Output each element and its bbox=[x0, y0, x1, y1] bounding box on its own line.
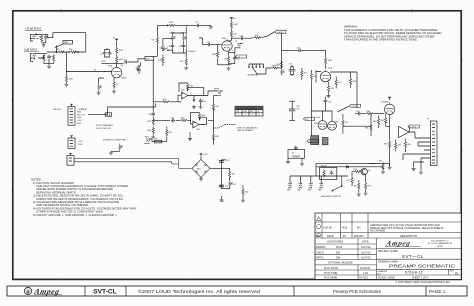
node V1 labels extra bbox=[94, 61, 124, 71]
resistor R49 return series bbox=[155, 138, 162, 143]
resistor R66 bbox=[404, 139, 411, 150]
svg-text:CHK'D:: CHK'D: bbox=[316, 251, 325, 254]
ground R8 bbox=[64, 83, 68, 87]
svg-text:SHEET 1 OF 1: SHEET 1 OF 1 bbox=[412, 277, 429, 280]
pot P1 trim bbox=[98, 82, 102, 91]
svg-text:DC VOLTAGE TABLE: DC VOLTAGE TABLE bbox=[237, 107, 256, 110]
capacitor C5 bypass bbox=[137, 66, 141, 74]
box shield b bbox=[322, 137, 328, 144]
svg-text:SVT-CL: SVT-CL bbox=[93, 289, 116, 296]
wire V3 cathode column bbox=[389, 115, 391, 166]
drawing name row bbox=[377, 268, 462, 270]
svg-text:R26: R26 bbox=[331, 88, 334, 90]
svg-text:R65: R65 bbox=[398, 145, 401, 147]
capacitor C11 grid bbox=[199, 38, 222, 46]
resistor R70 base bbox=[352, 169, 362, 173]
wire mute bus top bbox=[316, 164, 390, 176]
capacitor C1a input bbox=[42, 34, 50, 43]
svg-text:a: a bbox=[27, 290, 30, 296]
svg-text:Q1: Q1 bbox=[368, 170, 371, 172]
resistor R25 plate V2B bbox=[324, 57, 332, 65]
svg-text:R66: R66 bbox=[407, 144, 410, 146]
connector P3 bbox=[68, 136, 75, 149]
pot V2 volume bbox=[275, 61, 284, 76]
resistor R71 bbox=[346, 172, 353, 186]
svg-text:NO CHANGE: NO CHANGE bbox=[370, 230, 385, 233]
wire tone center vertical bbox=[185, 25, 187, 53]
svg-text:R63: R63 bbox=[381, 120, 384, 122]
ground connector b bbox=[419, 165, 423, 175]
svg-text:C12: C12 bbox=[236, 58, 239, 60]
svg-text:4: 4 bbox=[259, 114, 260, 116]
svg-text:RCW: RCW bbox=[336, 246, 343, 249]
capacitor C8 bbox=[159, 45, 165, 49]
capacitor C7 top bbox=[195, 22, 200, 28]
svg-text:THAN EXPLAINED IN THE OPERATIN: THAN EXPLAINED IN THE OPERATING INSTRUCT… bbox=[344, 38, 418, 42]
svg-text:DRAWN:: DRAWN: bbox=[316, 246, 326, 249]
wire flag down bbox=[282, 33, 326, 60]
resistor R45 mid bbox=[180, 118, 188, 122]
svg-text:V3-A&B: V3-A&B bbox=[381, 101, 389, 104]
resistor R6 bbox=[68, 49, 78, 53]
tube V3 triode bbox=[381, 101, 395, 115]
svg-text:SEE SH 2: SEE SH 2 bbox=[53, 109, 62, 111]
svg-text:GND: GND bbox=[77, 112, 82, 114]
svg-text:FILE NAME:: FILE NAME: bbox=[324, 277, 338, 280]
resistor R61 grid leak bbox=[365, 114, 372, 136]
ground Q1 a bbox=[357, 193, 361, 197]
resistor R18 cathode V2A bbox=[224, 51, 230, 65]
box shield a bbox=[311, 136, 319, 145]
svg-text:1: 1 bbox=[238, 114, 239, 116]
svg-text:C11: C11 bbox=[206, 42, 209, 44]
capacitor C10 bbox=[179, 44, 186, 48]
svg-text:LINE OUT (BALANCED): LINE OUT (BALANCED) bbox=[237, 127, 258, 130]
resistor R15 plate V2A bbox=[230, 20, 238, 29]
svg-text:C9: C9 bbox=[168, 46, 170, 48]
svg-text:R51: R51 bbox=[233, 184, 236, 186]
capacitor C42 mid bbox=[171, 118, 176, 123]
svg-text:SOLD P MLS CB: SOLD P MLS CB bbox=[96, 128, 111, 130]
wire J2 to R3 bbox=[38, 54, 47, 58]
ground P3 trim bbox=[109, 151, 113, 155]
resistor R73 bbox=[365, 175, 372, 192]
resistor R67 tall bbox=[342, 114, 348, 134]
svg-text:11/17/00: 11/17/00 bbox=[361, 246, 371, 249]
ground input bus bbox=[47, 65, 51, 69]
svg-text:R64: R64 bbox=[384, 143, 387, 145]
svg-text:C14: C14 bbox=[289, 63, 292, 65]
ground J1 bbox=[42, 43, 46, 47]
Ampeg script logo title block bbox=[384, 240, 421, 248]
svg-text:V2-B: V2-B bbox=[328, 68, 333, 70]
svg-text:(SEE SH 2/PAGE2): (SEE SH 2/PAGE2) bbox=[237, 129, 254, 132]
ground FX left bbox=[151, 135, 155, 139]
capacitor C4 coupling bbox=[124, 59, 145, 64]
resistor R63 cathode V3 bbox=[381, 114, 390, 126]
svg-text:R60: R60 bbox=[367, 111, 370, 113]
wire P4 rails bbox=[74, 159, 192, 169]
title block outline bbox=[315, 213, 461, 279]
tube V1A triode bbox=[108, 64, 127, 79]
svg-text:K1: K1 bbox=[292, 152, 294, 154]
ground V2A bbox=[227, 67, 231, 71]
power node B+1 bbox=[113, 38, 118, 42]
svg-text:1:04: 1:04 bbox=[363, 272, 368, 275]
transistor Q1 bbox=[361, 168, 371, 174]
connector J2 input jack bbox=[30, 53, 38, 62]
svg-text:C42: C42 bbox=[171, 118, 174, 120]
svg-text:MUTE: MUTE bbox=[321, 165, 327, 167]
svg-text:PLOT TIME:: PLOT TIME: bbox=[324, 272, 338, 275]
svg-text:R61: R61 bbox=[365, 128, 368, 130]
svg-text:NO.: NO. bbox=[378, 273, 382, 275]
svg-text:5) CIRCUIT GROUND ⏚ SUB GR: 5) CIRCUIT GROUND ⏚ SUB GROUND ⏚ CHASSIS… bbox=[33, 213, 118, 217]
svg-text:100: 100 bbox=[296, 109, 299, 111]
svg-text:R44: R44 bbox=[147, 130, 150, 132]
capacitor C9 bbox=[168, 44, 175, 48]
bridge rectifier BR1 bbox=[192, 159, 210, 177]
svg-text:NOTE: TERMINAL J: NOTE: TERMINAL J bbox=[96, 124, 113, 127]
resistor R64 tail bbox=[384, 140, 391, 148]
svg-text:POWER/COLUMN/P PAL 7: POWER/COLUMN/P PAL 7 bbox=[103, 139, 128, 142]
resistor R47 return bbox=[166, 127, 173, 142]
wire FX mid rail bbox=[153, 120, 213, 124]
jack J5 effects return bbox=[144, 137, 166, 144]
Ampeg logo footer bbox=[24, 287, 62, 296]
wire grid feed V1 bbox=[66, 52, 104, 72]
jack J4 effects send bbox=[208, 89, 223, 96]
svg-text:+15V: +15V bbox=[225, 160, 230, 162]
wire series loop bbox=[47, 33, 86, 52]
flag C3 left bbox=[235, 55, 246, 59]
svg-text:11/17/00: 11/17/00 bbox=[361, 251, 371, 254]
copyright line below title block bbox=[395, 281, 451, 284]
svg-text:FREQUENCY SWITCH: FREQUENCY SWITCH bbox=[321, 196, 341, 198]
svg-text:SVT2CL: SVT2CL bbox=[359, 277, 369, 280]
rotary MIDRANGE switch bbox=[248, 64, 264, 76]
svg-text:11/17/00: 11/17/00 bbox=[361, 257, 371, 260]
ground R13 bbox=[184, 66, 188, 70]
resistor R16 screen bbox=[230, 29, 237, 38]
svg-text:220K: 220K bbox=[212, 54, 217, 56]
svg-text:C2: C2 bbox=[100, 53, 102, 55]
svg-text:R42: R42 bbox=[215, 106, 218, 108]
note terminal text bbox=[96, 124, 113, 130]
capacitor C50 bbox=[217, 158, 230, 162]
diode D2 mute bbox=[345, 166, 350, 168]
svg-text:J3: J3 bbox=[235, 41, 237, 43]
resistor R46 feedback U1B bbox=[191, 112, 207, 124]
resistor R42 bbox=[212, 103, 219, 111]
power node B+3 bbox=[388, 97, 391, 100]
scale row bbox=[378, 277, 429, 280]
jack J12 pad bbox=[308, 183, 313, 192]
svg-text:C1/C2: C1/C2 bbox=[352, 106, 359, 108]
ground pot MID bbox=[136, 67, 140, 71]
wire buffer out bbox=[409, 132, 415, 138]
svg-text:100K: 100K bbox=[233, 24, 238, 26]
ground R74 bbox=[381, 170, 385, 174]
tube V3A triode bbox=[314, 121, 327, 130]
revision symbols column bbox=[316, 217, 320, 237]
svg-text:ECN/PN: ECN/PN bbox=[354, 235, 364, 238]
svg-text:DATE:: DATE: bbox=[362, 241, 369, 244]
connector P4 bbox=[67, 153, 74, 165]
wire input bus bottom bbox=[44, 59, 54, 65]
opamp U1A bbox=[181, 88, 188, 99]
resistor R11 top bbox=[167, 22, 176, 27]
resistor R72 bbox=[353, 180, 360, 193]
resistor R62 plate load bbox=[373, 116, 380, 128]
svg-text:C1/C2: C1/C2 bbox=[277, 32, 284, 34]
svg-text:C4: C4 bbox=[124, 59, 126, 61]
pot trim P3 bbox=[111, 144, 123, 152]
resistor R50 bbox=[229, 170, 236, 178]
svg-text:560: 560 bbox=[155, 138, 158, 140]
wire cathode V1 bbox=[104, 72, 114, 81]
resistor R5 bbox=[56, 49, 65, 53]
svg-text:C40: C40 bbox=[202, 101, 205, 103]
resistor R44 left bbox=[147, 127, 154, 135]
svg-text:GND: GND bbox=[78, 144, 83, 146]
resistor R17 grid bbox=[212, 45, 219, 65]
wire R67 to right bbox=[348, 124, 371, 126]
wire U1A out bbox=[188, 87, 208, 99]
ground R52 bbox=[241, 199, 245, 203]
flag PAD box bbox=[55, 40, 73, 47]
svg-text:100K: 100K bbox=[119, 59, 124, 61]
resistor R10 cathode bbox=[113, 81, 119, 89]
svg-text:C41: C41 bbox=[148, 114, 151, 116]
svg-text:PAD: PAD bbox=[64, 41, 69, 44]
svg-text:+ STANDBY: + STANDBY bbox=[77, 108, 88, 111]
svg-text:©2007 LOUD Technologies Inc.: ©2007 LOUD Technologies Inc. All rights … bbox=[138, 288, 261, 294]
wire plate supply V1 bbox=[102, 42, 124, 67]
wire stub node A bbox=[56, 45, 57, 52]
resistor R12 bbox=[151, 36, 158, 44]
ground relay right bbox=[300, 158, 304, 166]
resistor R1 input bbox=[39, 34, 43, 43]
wire P1 sig out bbox=[88, 103, 155, 114]
svg-text:R28: R28 bbox=[353, 81, 356, 83]
svg-text:ULTRA-LO: ULTRA-LO bbox=[186, 50, 196, 53]
svg-text:PAGE 1: PAGE 1 bbox=[429, 289, 446, 294]
resistor R20 mid feed bbox=[256, 65, 281, 74]
resistor R40 fx in bbox=[162, 95, 182, 103]
resistor R26 cathode V2B bbox=[327, 82, 334, 93]
svg-text:.047: .047 bbox=[179, 46, 183, 48]
resistor R9 bbox=[116, 56, 124, 64]
svg-text:R40: R40 bbox=[163, 99, 166, 101]
capacitor C1 bbox=[47, 55, 52, 59]
ground P1 bbox=[97, 91, 101, 95]
svg-text:R46: R46 bbox=[201, 115, 204, 117]
pot R51 bbox=[229, 180, 236, 187]
node HI INPUT label bbox=[25, 28, 42, 31]
svg-text:R43: R43 bbox=[147, 121, 150, 123]
wire V2B rail drop bbox=[316, 50, 326, 82]
wire line out leader bbox=[213, 125, 236, 129]
capacitor C3 bbox=[105, 48, 112, 57]
ground U1A out bbox=[192, 100, 196, 109]
svg-text:R67: R67 bbox=[345, 122, 348, 124]
node P2-A label bbox=[105, 113, 111, 117]
svg-text:1M: 1M bbox=[151, 40, 154, 42]
node P5 label bbox=[427, 119, 430, 121]
svg-text:APP'D:: APP'D: bbox=[316, 257, 324, 260]
jack J11 pad bbox=[297, 183, 302, 192]
wire FX right column bbox=[212, 95, 214, 144]
svg-text:C30: C30 bbox=[356, 111, 359, 113]
svg-text:0 dB INPUT: 0 dB INPUT bbox=[24, 48, 38, 51]
flag C1/C2 top bbox=[267, 30, 286, 36]
svg-text:R47: R47 bbox=[169, 132, 172, 134]
svg-text:R23: R23 bbox=[304, 73, 307, 75]
svg-text:C1/C2: C1/C2 bbox=[410, 127, 417, 129]
svg-text:PLOT DATE:: PLOT DATE: bbox=[324, 267, 339, 270]
resistor R3 bbox=[41, 54, 45, 62]
svg-text:© COPYRIGHT 2008 LOUD ELECTRO: © COPYRIGHT 2008 LOUD ELECTRONICS INC. bbox=[395, 281, 451, 284]
svg-text:C31: C31 bbox=[328, 102, 331, 104]
svg-text:DW: DW bbox=[336, 251, 341, 254]
svg-text:2: 2 bbox=[245, 114, 246, 116]
resistor R23 bbox=[301, 68, 308, 80]
svg-text:D3: D3 bbox=[305, 119, 307, 121]
jack J3 preamp out bbox=[235, 41, 243, 52]
connector P1 bbox=[68, 104, 75, 125]
wire top rail B bbox=[154, 25, 211, 56]
wire connector feeds bbox=[403, 138, 430, 165]
wire V1 out bus bbox=[99, 78, 104, 82]
tube V2B triode bbox=[320, 68, 332, 82]
svg-text:P2-A: P2-A bbox=[106, 114, 111, 117]
pot BASS bbox=[170, 32, 176, 42]
resistor R22 divider bbox=[277, 61, 283, 69]
ground connector a bbox=[405, 150, 424, 170]
resistor R74 exit bbox=[379, 160, 384, 170]
svg-text:DESCRIPTION: DESCRIPTION bbox=[400, 235, 417, 238]
capacitor C27 rail bbox=[297, 48, 302, 53]
power node B+2 bbox=[230, 17, 237, 20]
wire V2A cathode gnd bbox=[218, 64, 232, 66]
ground bridge bottom bbox=[199, 177, 203, 181]
resistor R27 bbox=[335, 77, 342, 89]
capacitor C40 bbox=[199, 99, 206, 106]
svg-text:100K: 100K bbox=[328, 60, 333, 62]
jack J10 pad bbox=[287, 183, 292, 192]
flag C1/C2 mid bbox=[337, 104, 360, 112]
wire strip right exit bbox=[369, 164, 390, 166]
capacitor C51 bbox=[217, 185, 229, 203]
tube V3B triode bbox=[328, 121, 339, 130]
svg-text:PROJECT NAME:: PROJECT NAME: bbox=[378, 250, 399, 253]
svg-text:SVT—CL: SVT—CL bbox=[402, 254, 424, 259]
company box bbox=[377, 248, 462, 250]
svg-text:V2A: V2A bbox=[222, 37, 227, 40]
opamp U1B bbox=[193, 121, 201, 131]
svg-text:R52: R52 bbox=[245, 191, 248, 193]
svg-text:DATE: DATE bbox=[327, 235, 334, 238]
svg-text:SIG OUT: SIG OUT bbox=[77, 114, 86, 116]
svg-text:100K: 100K bbox=[119, 50, 124, 52]
svg-text:C27: C27 bbox=[297, 48, 300, 50]
capacitor C32 psu electrolytic bbox=[289, 101, 300, 120]
svg-text:R41: R41 bbox=[190, 86, 193, 88]
capacitor C14 pair bbox=[289, 63, 296, 76]
svg-text:R74: R74 bbox=[379, 160, 382, 162]
svg-text:SEND: SEND bbox=[214, 89, 220, 91]
capacitor C12 cathode bbox=[229, 53, 240, 64]
table DC VOLTAGE bbox=[235, 106, 263, 116]
svg-text:DRAWING NAME:: DRAWING NAME: bbox=[378, 260, 399, 263]
wire V2B out right bbox=[326, 71, 358, 108]
svg-text:4-20-08: 4-20-08 bbox=[323, 227, 332, 230]
resistor R28 bbox=[330, 72, 356, 88]
ground V1 cathode bbox=[112, 90, 116, 94]
resistor R41 feedback bbox=[179, 83, 204, 92]
svg-text:R71: R71 bbox=[346, 180, 349, 182]
switch ULTRA-LO bbox=[163, 48, 197, 53]
wire bridge right bbox=[210, 160, 230, 199]
signatures table text bbox=[316, 241, 371, 280]
resistor R4 bbox=[53, 54, 55, 62]
svg-text:V1A: V1A bbox=[108, 64, 113, 67]
pot MID wire bbox=[138, 59, 145, 66]
connector P5 right bbox=[430, 121, 437, 166]
svg-text:SCALE: NONE: SCALE: NONE bbox=[378, 277, 395, 280]
svg-text:+15 dB INPUT: +15 dB INPUT bbox=[25, 28, 42, 31]
svg-text:3: 3 bbox=[252, 114, 253, 116]
svg-text:.1: .1 bbox=[110, 53, 112, 55]
switch FREQUENCY bbox=[321, 176, 342, 198]
box relay K1 bbox=[288, 146, 304, 159]
flag D3 pentagon bbox=[303, 117, 314, 121]
buffer A1 triangle bbox=[399, 126, 409, 137]
svg-text:PREAMP SCHEMATIC: PREAMP SCHEMATIC bbox=[389, 264, 456, 270]
svg-text:+15V: +15V bbox=[77, 120, 82, 122]
resistor R48 fx bottom right bbox=[212, 133, 219, 141]
svg-text:REV: REV bbox=[316, 235, 321, 238]
node LO INPUT label bbox=[24, 48, 38, 51]
capacitor C41 left bbox=[148, 112, 155, 116]
svg-text:DW: DW bbox=[336, 257, 341, 260]
resistor R65 bbox=[395, 140, 402, 152]
ground relay left bbox=[286, 158, 290, 163]
connector J1 input jack bbox=[30, 34, 41, 41]
svg-text:Preamp PCB Schematics: Preamp PCB Schematics bbox=[333, 289, 382, 294]
box VOLUME bbox=[145, 56, 154, 60]
capacitor C31 bbox=[324, 97, 332, 111]
resistor R43 left bbox=[147, 116, 154, 126]
svg-text:REV: REV bbox=[450, 271, 455, 273]
resistor R8 grid leak bbox=[65, 72, 73, 84]
box MUTE relay bbox=[320, 165, 337, 179]
ground C40 bbox=[199, 105, 203, 109]
pot TREBLE bbox=[181, 33, 187, 42]
svg-text:1M: 1M bbox=[41, 57, 44, 59]
svg-text:R9: R9 bbox=[94, 69, 96, 71]
svg-text:+15V: +15V bbox=[78, 141, 83, 143]
svg-text:BR1: BR1 bbox=[197, 168, 201, 170]
svg-text:C13: C13 bbox=[239, 35, 242, 37]
ground U1B bbox=[188, 132, 192, 141]
svg-text:470K: 470K bbox=[169, 22, 174, 24]
ground V2B bbox=[327, 93, 331, 98]
svg-text:C8: C8 bbox=[159, 48, 161, 50]
svg-text:R70: R70 bbox=[354, 169, 357, 171]
power node +V bridge bbox=[199, 154, 208, 160]
